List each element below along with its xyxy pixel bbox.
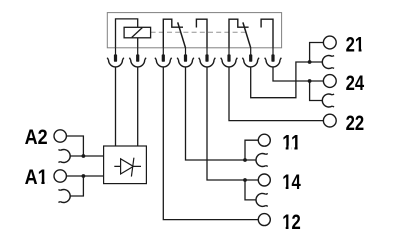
svg-text:24: 24 bbox=[346, 71, 365, 95]
svg-text:12: 12 bbox=[282, 210, 301, 234]
svg-text:21: 21 bbox=[346, 33, 365, 57]
svg-text:11: 11 bbox=[282, 130, 301, 154]
svg-text:14: 14 bbox=[282, 170, 301, 194]
svg-text:22: 22 bbox=[346, 111, 365, 135]
svg-text:A1: A1 bbox=[25, 165, 48, 189]
svg-text:A2: A2 bbox=[25, 125, 48, 149]
